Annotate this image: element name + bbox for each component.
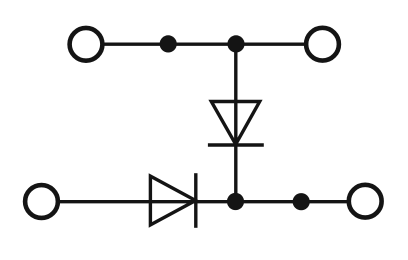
wire top horizontal: [86, 43, 323, 46]
terminal circle top-left: [70, 28, 103, 61]
wire vertical (node 1 to node 2): [234, 44, 237, 202]
junction node top-b: [227, 35, 244, 52]
terminal circle bottom-left: [25, 185, 58, 218]
terminal circle top-right: [306, 28, 339, 61]
diode D1 (vertical, cathode down): [208, 102, 264, 146]
terminal circle bottom-right: [349, 185, 382, 218]
junction node bottom-b: [293, 193, 310, 210]
junction node top-a: [160, 35, 177, 52]
junction node bottom-a: [227, 193, 244, 210]
wire bottom horizontal: [42, 200, 366, 203]
diode D2 (horizontal, cathode right): [150, 173, 195, 228]
